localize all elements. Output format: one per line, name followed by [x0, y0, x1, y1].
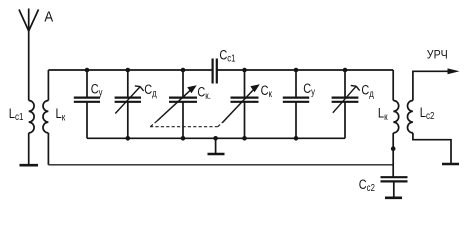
svg-text:Lс1: Lс1 — [9, 106, 24, 123]
svg-text:A: A — [44, 8, 53, 25]
capacitor Ck1 (variable) — [157, 70, 197, 138]
wire Lc1 to ground — [28, 133, 30, 165]
wire top bus right section — [217, 69, 393, 71]
ground under Cc2 — [385, 197, 402, 200]
ground center — [208, 138, 225, 154]
svg-text:УРЧ: УРЧ — [427, 49, 448, 61]
svg-text:Су: Су — [91, 81, 103, 98]
wire long bottom return — [48, 164, 393, 166]
svg-text:Сд: Сд — [361, 82, 374, 99]
svg-text:Сд: Сд — [144, 82, 157, 99]
capacitor Cy1 — [74, 70, 100, 138]
wire antenna mast — [28, 31, 30, 101]
inductor Lc2 — [407, 101, 412, 133]
svg-text:Lк: Lк — [378, 105, 388, 122]
node top bus Cd1 — [126, 68, 131, 73]
inductor Lk (right) — [393, 101, 398, 133]
capacitor Cd2 (trimmer) — [332, 70, 360, 138]
node top bus Cd2 — [343, 68, 348, 73]
dashed gang coupling link — [150, 121, 224, 127]
node bottom bus ground — [213, 136, 218, 141]
svg-text:Су: Су — [303, 81, 315, 98]
node top bus Ck1 — [181, 68, 186, 73]
svg-text:Ск.: Ск. — [197, 84, 210, 101]
node bottom bus Cd1 — [126, 136, 131, 141]
wire Lc2 bottom to ground — [413, 133, 451, 164]
capacitor Ck2 (variable) — [223, 70, 259, 138]
node top bus Ck2 — [242, 68, 247, 73]
node bottom bus Ck1 — [181, 136, 186, 141]
arrowhead output URCh — [448, 68, 460, 74]
wire Lk top riser — [47, 70, 49, 101]
ground — [20, 164, 39, 167]
wire Lk right top riser — [392, 70, 394, 101]
wire Lk bottom corner — [47, 133, 49, 165]
svg-text:Lс2: Lс2 — [420, 105, 435, 122]
node bottom bus Cy2 — [294, 136, 299, 141]
wire Lc2 top to output — [413, 71, 448, 100]
svg-text:Ск: Ск — [261, 83, 272, 100]
inductor Lk (left) — [43, 101, 48, 133]
svg-text:Lк: Lк — [56, 106, 66, 123]
svg-text:Сс1: Сс1 — [219, 47, 235, 64]
arrowhead Ck1 — [187, 85, 197, 93]
antenna A — [19, 9, 39, 101]
capacitor Cd1 (trimmer) — [115, 70, 144, 138]
arrowhead Ck2 — [250, 84, 259, 92]
wire top bus left section — [48, 69, 212, 71]
inductor Lc1 — [29, 101, 34, 133]
capacitor Cc1 — [213, 59, 217, 84]
ground right — [442, 163, 459, 166]
capacitor Cc2 — [381, 177, 408, 197]
node bottom bus Ck2 — [242, 136, 247, 141]
capacitor Cy2 — [283, 70, 309, 138]
svg-text:Сс2: Сс2 — [359, 177, 375, 194]
node top bus Cy2 — [294, 68, 299, 73]
wire bottom bus — [87, 137, 345, 139]
node junction Lk-Cc2 — [391, 146, 396, 151]
wire Lk right bottom — [392, 133, 394, 177]
node top bus Cy1 — [85, 68, 90, 73]
